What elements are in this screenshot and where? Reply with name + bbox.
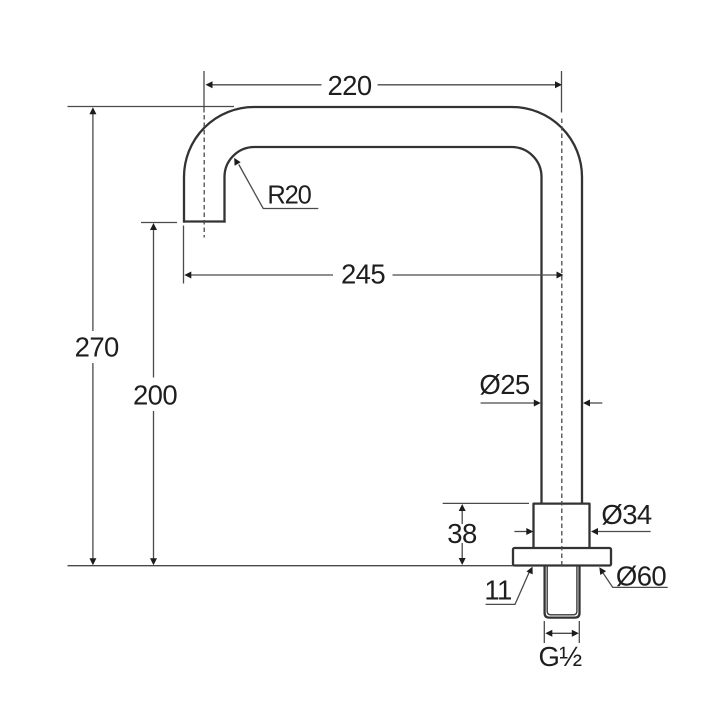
svg-text:220: 220: [327, 70, 371, 101]
dimension Ø34 right line: [598, 531, 651, 533]
dimension Ø25 right line: [590, 402, 603, 404]
dimension 245 left arrowhead: [184, 272, 191, 279]
R20 leader line: [239, 165, 318, 209]
dimension 245 line: [190, 274, 557, 276]
svg-text:Ø34: Ø34: [601, 499, 651, 530]
dimension 38 line: [461, 510, 463, 560]
Ø60 leader line: [603, 572, 668, 587]
11 arrowhead: [526, 567, 532, 575]
extension line left of G1/2 dim: [543, 621, 545, 643]
dimension 270 top arrowhead: [89, 107, 96, 114]
extension line above 38 dim: [443, 502, 529, 504]
dimension 270 bottom arrowhead: [89, 558, 96, 565]
extension tick left of 220 dim: [203, 71, 205, 113]
dimension Ø25 right arrowhead: [583, 400, 590, 407]
threaded stub inner thread line: [547, 566, 577, 615]
spout outlet bottom edge: [183, 220, 226, 222]
threaded stub outer contour: [545, 566, 580, 618]
dimension 220 line: [211, 84, 555, 86]
svg-text:Ø60: Ø60: [616, 560, 666, 591]
dimension Ø34 left arrowhead: [526, 528, 533, 535]
extension tick right of 220 dim: [561, 71, 563, 113]
flange (Ø60 section): [513, 548, 611, 566]
svg-text:245: 245: [341, 259, 385, 290]
dimension G1/2 right arrowhead: [572, 630, 579, 637]
spout inner contour: [225, 147, 542, 504]
dimension 245 right arrowhead: [557, 272, 564, 279]
svg-text:11: 11: [484, 574, 511, 605]
svg-text:G½: G½: [538, 641, 582, 672]
dimension Ø34 right arrowhead: [591, 528, 598, 535]
dimension G1/2 left arrowhead: [545, 630, 552, 637]
svg-text:200: 200: [133, 379, 177, 410]
dimension 270 line: [92, 113, 94, 559]
extension line left of 245 dim: [183, 226, 185, 284]
dimension Ø34 left line: [514, 531, 527, 533]
extension line right of G1/2 dim: [578, 621, 580, 643]
dimension 200 bottom arrowhead: [150, 558, 157, 565]
svg-text:270: 270: [75, 332, 119, 363]
vertical centerline of riser (dashed): [561, 119, 563, 567]
dimension 200 top arrowhead: [150, 223, 157, 230]
svg-text:R20: R20: [267, 181, 311, 209]
11 leader line: [486, 572, 530, 605]
dimension 38 bottom arrowhead: [459, 558, 466, 565]
extension line for 200 dim: [141, 222, 177, 224]
centerline of outlet (dashed): [203, 115, 205, 238]
dimension 220 right arrowhead: [555, 81, 562, 88]
dimension 200 line: [153, 229, 155, 559]
Ø60 arrowhead: [599, 567, 606, 575]
svg-text:38: 38: [447, 518, 477, 549]
dimension G1/2 line: [551, 632, 573, 634]
svg-text:Ø25: Ø25: [479, 369, 529, 400]
dimension Ø25 left arrowhead: [534, 400, 541, 407]
baseline extension (bottom reference): [68, 565, 514, 567]
extension line above 270 dim: [68, 106, 235, 108]
collar (Ø34 section): [534, 504, 590, 548]
dimension 220 left arrowhead: [206, 81, 213, 88]
R20 arrowhead: [234, 158, 241, 166]
dimension Ø25 left line: [481, 402, 535, 404]
dimension 38 top arrowhead: [459, 504, 466, 511]
spout outer contour: [184, 107, 582, 504]
